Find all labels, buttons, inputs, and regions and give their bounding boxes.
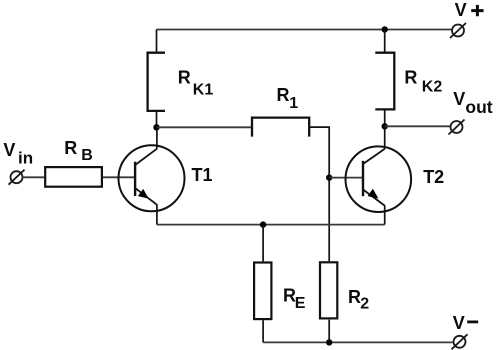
svg-text:T2: T2 — [423, 167, 444, 187]
resistor RK2 — [375, 30, 394, 127]
terminal Vout — [449, 120, 465, 135]
svg-text:V: V — [455, 0, 467, 20]
svg-text:R: R — [178, 67, 191, 87]
transistor T1 — [119, 127, 185, 224]
svg-text:K2: K2 — [422, 79, 443, 96]
svg-text:2: 2 — [360, 296, 369, 313]
resistor RE — [254, 263, 271, 320]
wire RB to T1 base — [103, 176, 135, 178]
T1 emitter arrow — [138, 189, 149, 199]
svg-text:R: R — [277, 85, 290, 105]
node RE junction — [260, 221, 266, 227]
T2 emitter arrow — [368, 189, 379, 199]
wire T2 base — [329, 177, 363, 179]
svg-text:K1: K1 — [193, 81, 214, 98]
wire Vout — [385, 125, 450, 127]
wire R1 left lead — [157, 126, 253, 128]
svg-text:out: out — [465, 97, 492, 117]
wire RE bottom lead — [262, 320, 264, 342]
svg-text:R: R — [404, 68, 417, 88]
wire Vin to RB — [23, 176, 45, 178]
resistor RB — [45, 167, 102, 187]
terminal Vin — [9, 170, 25, 185]
svg-text:V: V — [453, 313, 465, 333]
wire R1 right lead down to R2 — [309, 127, 329, 261]
svg-text:B: B — [81, 147, 93, 164]
wire V- bottom rail — [263, 341, 452, 343]
svg-text:T1: T1 — [192, 165, 213, 185]
node T1 collector junction — [153, 124, 159, 130]
wire RE top lead — [262, 225, 264, 262]
svg-text:R: R — [64, 138, 77, 158]
terminal V- — [452, 334, 468, 349]
resistor R2 — [320, 262, 337, 318]
node R2 bottom junction — [326, 339, 332, 345]
wire emitter rail — [157, 224, 385, 226]
node RK2 top junction — [382, 26, 388, 32]
wire V+ top rail — [157, 29, 452, 31]
transistor T2 — [346, 126, 412, 224]
svg-text:in: in — [18, 149, 33, 168]
svg-text:1: 1 — [289, 95, 298, 112]
svg-text:R: R — [348, 287, 361, 307]
terminal V+ — [450, 23, 466, 38]
svg-text:V: V — [453, 89, 465, 109]
resistor R1 — [252, 118, 309, 137]
svg-text:V: V — [3, 140, 15, 160]
node T2 base junction — [326, 174, 332, 180]
wire R2 bottom lead — [328, 320, 330, 343]
resistor RK1 — [148, 30, 165, 128]
svg-text:E: E — [295, 295, 306, 312]
node T2 collector junction — [382, 123, 388, 129]
